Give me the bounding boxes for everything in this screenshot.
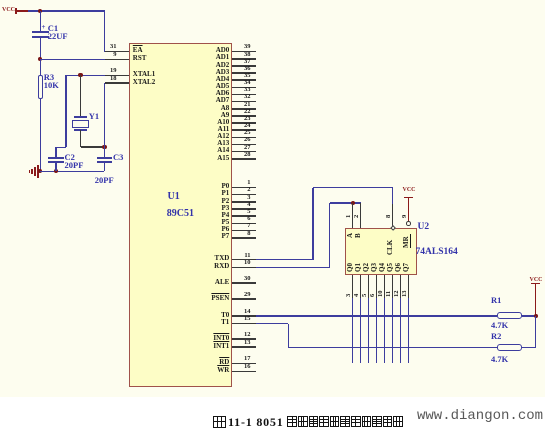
pin 14 T0 (U1 right): [232, 315, 256, 317]
pin 34 AD5 (U1 right): [232, 87, 256, 89]
node junction ground/C2: [54, 169, 58, 173]
node junction C1/R3/RST: [38, 57, 42, 61]
pin 37 AD2 (U1 right): [232, 65, 256, 67]
wire Q3 column: [376, 298, 378, 364]
pin 33 AD6 (U1 right): [232, 94, 256, 96]
pin 17 RD (U1 right): [232, 363, 256, 365]
wire XTAL2 net: [104, 83, 106, 157]
watermark www.diangon.com: [417, 409, 543, 424]
pin 6 P5 (U1 right): [232, 223, 256, 225]
wire Q2 column: [368, 298, 370, 364]
wire ground rail: [40, 171, 104, 173]
wire Q5 column: [392, 298, 394, 364]
capacitor C2 20PF: [48, 157, 63, 159]
resistor R1 4.7K: [497, 312, 522, 319]
pin 25 A12 (U1 right): [232, 137, 256, 139]
pin 7 P6 (U1 right): [232, 230, 256, 232]
pin 19 XTAL1 (U1 left): [105, 75, 129, 77]
pin 22 A9 (U1 right): [232, 115, 256, 117]
pin 27 A14 (U1 right): [232, 151, 256, 153]
power port VCC (right pull-ups): [530, 277, 543, 284]
pin 18 XTAL2 (U1 left): [105, 82, 129, 84]
wire T1 row to R2: [256, 323, 288, 325]
pin 6 Q3 (U2 bottom): [376, 275, 378, 298]
wire Q0 column: [352, 298, 354, 364]
node junction R1/VCC: [534, 314, 538, 318]
wire T0 row to R1: [256, 315, 497, 317]
wire XTAL1 net: [66, 75, 105, 77]
pin 8 CLK (U2): [392, 204, 394, 226]
pin 23 A10 (U1 right): [232, 122, 256, 124]
pin 1 P0 (U1 right): [232, 187, 256, 189]
pin 21 A8 (U1 right): [232, 108, 256, 110]
pin 28 A15 (U1 right): [232, 158, 256, 160]
pin 4 P3 (U1 right): [232, 208, 256, 210]
pin 13 INT1 (U1 right): [232, 346, 256, 348]
wire Q6 column: [400, 298, 402, 364]
power port VCC (above U2 MR): [403, 187, 416, 194]
pin 26 A13 (U1 right): [232, 144, 256, 146]
pin 9 MR (U2) with bubble: [406, 221, 411, 226]
capacitor C3 20PF: [97, 157, 112, 159]
wire Q4 column: [384, 298, 386, 364]
wire RXD to U2 A/B: [256, 267, 330, 269]
pin 35 AD4 (U1 right): [232, 79, 256, 81]
pin 39 AD0 (U1 right): [232, 51, 256, 53]
pin 16 WR (U1 right): [232, 371, 256, 373]
resistor R2 4.7K: [497, 344, 522, 351]
power port VCC (top left): [2, 7, 15, 14]
pin 15 T1 (U1 right): [232, 323, 256, 325]
node junction ground/R3: [38, 169, 42, 173]
pin 36 AD3 (U1 right): [232, 72, 256, 74]
resistor R3 10K: [40, 59, 42, 75]
wire VCC rail down to pin EA: [104, 11, 106, 52]
pin 2 P1 (U1 right): [232, 194, 256, 196]
pin 24 A11 (U1 right): [232, 129, 256, 131]
wire Q7 column: [408, 298, 410, 364]
wire VCC to R2: [535, 316, 537, 348]
node junction Y1/XTAL2 net: [102, 145, 106, 149]
caption text: [213, 413, 443, 431]
pin 12 INT0 (U1 right): [232, 338, 256, 340]
pin 3 Q0 (U2 bottom): [352, 275, 354, 298]
clock input marker (U2 CLK): [390, 225, 396, 231]
pin 10 RXD (U1 right): [232, 267, 256, 269]
pin 12 Q6 (U2 bottom): [400, 275, 402, 298]
wire Q1 column: [360, 298, 362, 364]
wire TXD to U2 CLK: [256, 259, 313, 261]
pin 30 ALE (U1 right): [232, 282, 256, 284]
pin 5 P4 (U1 right): [232, 215, 256, 217]
pin 3 P2 (U1 right): [232, 201, 256, 203]
overline of MR: [410, 234, 411, 249]
pin 5 Q2 (U2 bottom): [368, 275, 370, 298]
node junction pin A: [351, 201, 355, 205]
pin 9 RST (U1 left): [105, 59, 129, 61]
pin 29 PSEN (U1 right): [232, 298, 256, 300]
crystal Y1: [80, 75, 82, 116]
chip U2 74ALS164 body: [345, 228, 418, 275]
pin 10 Q4 (U2 bottom): [384, 275, 386, 298]
pin 11 Q5 (U2 bottom): [392, 275, 394, 298]
node junction XTAL1/Y1: [78, 73, 82, 77]
wire VCC rail: [28, 10, 105, 12]
pin 31 EA (U1 left): [105, 51, 129, 53]
capacitor C1 22UF: [40, 11, 42, 31]
pin 11 TXD (U1 right): [232, 259, 256, 261]
chip U1 89C51 body: [129, 43, 233, 388]
wire RST net: [40, 59, 105, 61]
pin 4 Q1 (U2 bottom): [360, 275, 362, 298]
pin 2 B (U2): [360, 203, 362, 228]
pin 38 AD1 (U1 right): [232, 58, 256, 60]
pin 1 A (U2): [352, 203, 354, 228]
pin 8 P7 (U1 right): [232, 237, 256, 239]
ground: [37, 171, 40, 173]
pin 13 Q7 (U2 bottom): [408, 275, 410, 298]
node junction VCC/C1: [38, 9, 42, 13]
pin 32 AD7 (U1 right): [232, 101, 256, 103]
